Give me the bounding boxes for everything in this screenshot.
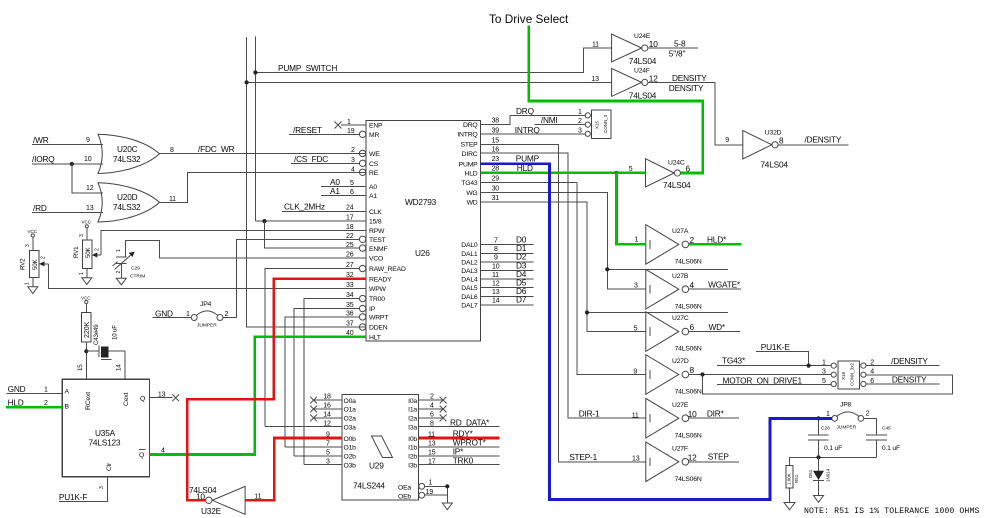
buffer U27F 74LS06N	[646, 442, 702, 483]
ground below R51	[784, 503, 795, 510]
svg-text:16: 16	[492, 147, 500, 154]
pin READY number	[346, 272, 354, 279]
svg-text:3: 3	[99, 486, 105, 489]
svg-text:HLD*: HLD*	[707, 235, 727, 245]
svg-text:STEP: STEP	[461, 142, 479, 149]
wire TG43 to U27D input	[481, 176, 646, 376]
resistor R49 220K	[77, 313, 100, 380]
svg-text:1: 1	[116, 249, 122, 252]
svg-text:33: 33	[346, 282, 354, 289]
svg-text:IP: IP	[369, 306, 376, 313]
node /NMI label to X15 pin2	[534, 115, 585, 125]
wire blue PUMP from chip to JP8	[481, 164, 832, 500]
svg-text:4: 4	[870, 369, 874, 376]
pin O3a 12 wire	[265, 420, 342, 427]
wire green HLD from chip to U24C and U27A	[481, 171, 646, 245]
svg-text:74LS123: 74LS123	[89, 438, 121, 448]
svg-text:RV1: RV1	[73, 246, 80, 258]
svg-text:1: 1	[429, 480, 433, 487]
power VCC for RV2	[25, 229, 38, 250]
wire DDEN net to U24F input	[245, 80, 612, 84]
svg-text:74LS04: 74LS04	[760, 160, 788, 170]
svg-text:14: 14	[492, 298, 500, 305]
svg-text:HLD: HLD	[465, 171, 478, 178]
node TRK0 into I3b	[419, 455, 500, 465]
svg-text:ENP: ENP	[369, 123, 383, 130]
svg-text:2: 2	[351, 147, 355, 154]
svg-text:U20C: U20C	[117, 144, 138, 154]
svg-text:DAL3: DAL3	[461, 268, 478, 275]
svg-text:3: 3	[25, 244, 31, 247]
svg-text:4: 4	[351, 167, 355, 174]
svg-text:/NMI: /NMI	[541, 115, 558, 125]
node RD_DATA* into I3a	[419, 417, 500, 427]
svg-text:JUMPER: JUMPER	[197, 323, 217, 329]
svg-text:1: 1	[635, 237, 639, 244]
svg-text:13: 13	[591, 76, 599, 83]
svg-text:TG43*: TG43*	[722, 356, 746, 366]
wire TEST to JP4 pin2	[223, 233, 366, 318]
node DAL2 D2	[481, 252, 534, 262]
svg-text:8: 8	[494, 246, 498, 253]
jumper JP8	[826, 402, 870, 431]
potentiometer RV1 50K	[73, 240, 101, 277]
svg-text:220K: 220K	[84, 321, 91, 338]
svg-text:1: 1	[826, 411, 830, 418]
wire stub net A from WG vertical	[605, 267, 728, 271]
chip U26 right pin names	[457, 122, 478, 309]
svg-text:TRK0: TRK0	[453, 455, 474, 465]
svg-text:4: 4	[690, 280, 695, 290]
svg-text:U35A: U35A	[95, 428, 116, 438]
svg-text:8: 8	[690, 365, 695, 375]
wire bus vertical B (15/8 net from top)	[254, 36, 256, 221]
svg-text:PUMP_SWITCH: PUMP_SWITCH	[278, 63, 337, 73]
svg-text:U27B: U27B	[672, 273, 689, 280]
svg-text:2: 2	[41, 256, 47, 259]
svg-text:Q: Q	[139, 452, 144, 459]
svg-text:I2b: I2b	[408, 454, 417, 461]
svg-text:RCext: RCext	[85, 392, 92, 410]
svg-text:O1a: O1a	[344, 407, 357, 414]
svg-text:DAL1: DAL1	[461, 251, 478, 258]
wire STEP to STEP-1	[481, 137, 646, 462]
svg-text:6: 6	[690, 322, 695, 332]
power VCC for RV1	[79, 220, 92, 241]
wire PUMP_SWITCH to U24E input	[253, 48, 611, 75]
svg-text:2: 2	[225, 311, 229, 318]
svg-text:O3b: O3b	[344, 463, 357, 470]
wire U20D output 11 to RE	[160, 172, 367, 203]
svg-text:PU1K-F: PU1K-F	[59, 492, 87, 502]
svg-text:74LS06N: 74LS06N	[675, 346, 702, 353]
svg-text:PU1K-E: PU1K-E	[761, 342, 790, 352]
svg-text:WD: WD	[467, 200, 478, 207]
pin O1a 16 no-connect	[310, 403, 342, 413]
svg-text:JUMPER: JUMPER	[837, 425, 857, 431]
svg-text:74LS06N: 74LS06N	[675, 259, 702, 266]
svg-text:35: 35	[346, 302, 354, 309]
note text about R51	[804, 507, 979, 516]
svg-text:19: 19	[347, 128, 355, 135]
pin O3b 3 wire	[304, 458, 342, 465]
svg-text:B: B	[65, 404, 70, 411]
svg-text:I1b: I1b	[408, 445, 417, 452]
svg-text:U27A: U27A	[672, 228, 689, 235]
svg-text:12: 12	[86, 185, 94, 192]
svg-text:RPW: RPW	[369, 228, 385, 235]
svg-text:JP4: JP4	[200, 301, 212, 308]
svg-text:5: 5	[634, 326, 638, 333]
buffer U27A 74LS06N	[635, 225, 702, 266]
svg-text:25: 25	[346, 242, 354, 249]
wire C28/C45 bottom junction	[790, 455, 877, 459]
buffer U27E 74LS06N	[646, 398, 702, 439]
inverter U32D 74LS04	[725, 130, 788, 170]
svg-text:DENSITY: DENSITY	[669, 83, 704, 93]
svg-text:U27E: U27E	[672, 402, 689, 409]
capacitor C43 10uF	[86, 325, 125, 379]
node WPROT* into I1b	[419, 438, 500, 448]
ground below OE pins	[442, 503, 452, 510]
svg-text:To Drive Select: To Drive Select	[489, 12, 569, 26]
svg-text:R51: R51	[794, 474, 799, 483]
svg-text:WPW: WPW	[369, 286, 387, 293]
svg-text:RAW_READ: RAW_READ	[369, 266, 406, 273]
svg-text:36: 36	[346, 310, 354, 317]
svg-text:/IORQ: /IORQ	[32, 154, 55, 164]
svg-text:50K: 50K	[85, 247, 92, 258]
svg-text:74LS32: 74LS32	[113, 202, 141, 212]
svg-text:10: 10	[688, 409, 697, 419]
svg-text:I3a: I3a	[408, 425, 417, 432]
capacitor C28 0.1uF	[808, 416, 842, 457]
pin O0a 18 no-connect	[310, 394, 342, 404]
pin CS bubble	[359, 160, 365, 166]
pin PUMP number and label	[492, 154, 540, 164]
svg-text:INTRQ: INTRQ	[457, 132, 477, 139]
svg-text:22: 22	[346, 233, 354, 240]
pin O1b 7 wire	[285, 441, 342, 448]
wire red U32E input from RDY vertical	[245, 438, 342, 500]
svg-text:RV2: RV2	[20, 258, 27, 270]
svg-text:TG43: TG43	[461, 180, 478, 187]
svg-text:10 uF: 10 uF	[112, 325, 119, 340]
svg-text:OEb: OEb	[398, 494, 411, 501]
svg-text:9: 9	[86, 137, 90, 144]
wire WRPT from U29 O1b	[285, 310, 366, 447]
svg-text:CONN_3: CONN_3	[603, 114, 608, 133]
node PU1K-E label	[756, 342, 808, 366]
diode D51 1N914	[808, 457, 831, 495]
svg-text:U26: U26	[415, 248, 430, 258]
node /RD label	[32, 203, 103, 213]
wire green HLT from U35A Qbar	[150, 337, 367, 455]
node DAL4 D4	[481, 269, 534, 279]
wire VCO from C29	[125, 240, 366, 258]
svg-text:24: 24	[346, 205, 354, 212]
svg-text:C45: C45	[882, 426, 891, 432]
svg-text:I0b: I0b	[408, 436, 417, 443]
svg-text:D51: D51	[808, 469, 813, 478]
wire U20C output /FDC_WR to WE	[160, 144, 367, 154]
svg-text:74LS04: 74LS04	[629, 56, 657, 66]
pin ENMF bubble	[346, 242, 366, 251]
svg-text:13: 13	[86, 205, 94, 212]
wire WD to U27C input	[481, 195, 646, 333]
svg-text:CTRIM: CTRIM	[130, 274, 145, 280]
svg-text:34: 34	[346, 292, 354, 299]
svg-text:WD2793: WD2793	[405, 197, 437, 207]
pin 15/8 number	[346, 215, 354, 222]
node /DENSITY from X18 pin2	[866, 356, 939, 366]
svg-text:U27F: U27F	[672, 445, 688, 452]
svg-text:0.1 uF: 0.1 uF	[824, 445, 842, 452]
wire Clr pin3 to PU1K-F	[59, 477, 108, 502]
svg-text:/FDC_WR: /FDC_WR	[198, 144, 235, 154]
trimmer capacitor C29 CTRIM	[113, 249, 146, 280]
svg-text:A1: A1	[330, 186, 340, 196]
pin Qbar 4 number	[161, 447, 165, 454]
pin DDEN bubble	[346, 320, 366, 330]
svg-text:WRPT: WRPT	[369, 315, 388, 322]
svg-text:1: 1	[578, 109, 582, 116]
svg-text:NOTE: R51 IS 1% TOLERANCE 1000: NOTE: R51 IS 1% TOLERANCE 1000 OHMS	[804, 507, 979, 516]
svg-text:STEP-1: STEP-1	[569, 452, 597, 462]
svg-text:/DENSITY: /DENSITY	[805, 135, 842, 145]
svg-text:MOTOR_ON_DRIVE1: MOTOR_ON_DRIVE1	[723, 375, 803, 385]
svg-text:VCC: VCC	[28, 229, 38, 234]
svg-text:38: 38	[492, 118, 500, 125]
wire RAW_READ from U29 O3a	[265, 262, 366, 427]
svg-text:I1a: I1a	[408, 407, 417, 414]
svg-text:/CS_FDC: /CS_FDC	[294, 154, 328, 164]
svg-text:14: 14	[115, 364, 122, 371]
svg-text:74LS32: 74LS32	[113, 154, 141, 164]
pin HLT number	[346, 330, 354, 337]
pin OEa OEb bubbles tied to ground	[419, 480, 450, 504]
svg-text:3: 3	[578, 128, 582, 135]
inverter U24E 74LS04	[592, 33, 658, 66]
wire U27D output to X18 pin3	[689, 372, 831, 376]
svg-text:10: 10	[492, 263, 500, 270]
node DENSITY output net	[648, 73, 743, 145]
svg-text:1: 1	[25, 282, 31, 285]
svg-text:DENSITY: DENSITY	[892, 374, 927, 384]
or-gate U20C 74LS32	[98, 134, 160, 173]
svg-text:READY: READY	[369, 277, 392, 284]
chip U26 left pin names	[369, 123, 406, 342]
wire TR00 from U29 O3b	[304, 292, 366, 465]
wire RPW from RV1 wiper	[101, 224, 366, 255]
svg-text:ENMF: ENMF	[369, 246, 388, 253]
svg-text:U20D: U20D	[117, 192, 138, 202]
connector X18 CONN_3x2	[822, 360, 874, 390]
svg-text:1: 1	[79, 272, 85, 275]
inverter U24F 74LS04	[591, 68, 658, 101]
svg-text:9: 9	[494, 255, 498, 262]
svg-text:O0a: O0a	[344, 398, 357, 405]
svg-text:DRQ: DRQ	[463, 122, 478, 129]
wire bus vertical A (DDEN net from top)	[247, 37, 366, 327]
resistor R51 1.00K	[786, 457, 799, 502]
wire red READY from chip	[187, 279, 366, 500]
svg-text:X15: X15	[595, 120, 600, 129]
svg-text:PUMP: PUMP	[459, 161, 479, 168]
svg-text:74LS06N: 74LS06N	[675, 432, 702, 439]
svg-text:Clr: Clr	[106, 462, 113, 471]
svg-text:2: 2	[116, 271, 122, 274]
svg-text:9: 9	[725, 137, 729, 144]
svg-text:/RD: /RD	[33, 203, 47, 213]
pin O2a 14 no-connect	[310, 412, 342, 422]
svg-text:5: 5	[822, 378, 826, 385]
wire /IORQ branch to U20D pin 12	[72, 164, 103, 193]
svg-text:O1b: O1b	[344, 445, 357, 452]
svg-text:9: 9	[633, 369, 637, 376]
svg-text:U24F: U24F	[634, 68, 650, 75]
svg-text:OEa: OEa	[398, 485, 411, 492]
chip U29 74LS244 body	[342, 395, 419, 501]
node DAL6 D6	[481, 286, 534, 296]
svg-text:DDEN: DDEN	[369, 325, 388, 332]
buffer U27D 74LS06N	[646, 355, 702, 396]
svg-text:A0: A0	[369, 184, 377, 191]
ground below D51	[814, 496, 824, 503]
capacitor C45 0.1uF	[864, 418, 900, 457]
node MOTOR_ON_DRIVE1 label wire to X18 pin5	[717, 375, 831, 385]
svg-text:1N914: 1N914	[826, 468, 831, 482]
node WGATE* output	[689, 280, 741, 290]
svg-text:I0a: I0a	[408, 398, 417, 405]
svg-text:15/8: 15/8	[369, 219, 382, 226]
buffer U27C 74LS06N	[646, 312, 702, 353]
svg-text:VCC: VCC	[82, 220, 92, 225]
svg-text:DENSITY: DENSITY	[672, 73, 707, 83]
svg-text:VCC: VCC	[81, 296, 91, 301]
node To Drive Select label	[489, 12, 569, 26]
node /RESET label to MR	[289, 125, 366, 138]
node WD* output	[689, 322, 740, 332]
svg-text:1: 1	[44, 387, 48, 394]
svg-text:WE: WE	[369, 151, 380, 158]
svg-text:5: 5	[350, 180, 354, 187]
svg-text:X18: X18	[841, 371, 846, 380]
svg-text:DAL5: DAL5	[461, 285, 478, 292]
svg-text:74LS244: 74LS244	[353, 481, 385, 491]
svg-text:10: 10	[84, 156, 92, 163]
svg-text:15: 15	[77, 364, 84, 371]
node DAL7 D7	[481, 295, 534, 305]
inverter U24C 74LS04	[629, 159, 691, 190]
svg-text:A: A	[65, 389, 70, 396]
svg-text:WG: WG	[466, 190, 477, 197]
svg-text:74LS04: 74LS04	[663, 180, 691, 190]
svg-text:12: 12	[492, 281, 500, 288]
node CLK_2MHz label	[282, 202, 366, 212]
wire IP from U29 O2b	[294, 302, 366, 456]
svg-text:7: 7	[494, 238, 498, 245]
svg-text:1.00K: 1.00K	[787, 473, 792, 485]
wire 15/8 line into chip	[255, 219, 366, 223]
svg-text:2: 2	[578, 118, 582, 125]
svg-text:I3b: I3b	[408, 463, 417, 470]
node DAL1 D1	[481, 243, 534, 253]
jumper JP4	[153, 301, 229, 329]
svg-text:26: 26	[346, 252, 354, 259]
svg-text:Cext: Cext	[123, 393, 130, 406]
svg-text:DIR*: DIR*	[707, 409, 725, 419]
chip U26 WD2793 body	[366, 120, 481, 341]
node TG43* label wire to X18 pin1	[717, 356, 831, 368]
svg-text:U32E: U32E	[201, 506, 222, 516]
pin O2b 5 wire	[294, 450, 342, 457]
pin I1a 4 no-connect	[419, 403, 447, 413]
node IP* into I2b	[419, 447, 500, 457]
svg-text:I2a: I2a	[408, 416, 417, 423]
svg-text:29: 29	[492, 176, 500, 183]
svg-text:GND: GND	[8, 384, 26, 394]
node RDY* into I0b (red)	[419, 429, 500, 439]
svg-text:1: 1	[347, 119, 351, 126]
wire U27D output loop to X18 pin4	[703, 375, 953, 394]
pin I2a 6 no-connect	[419, 412, 447, 422]
node /IORQ label	[32, 154, 103, 166]
node A1 label	[321, 186, 366, 196]
node A0 label	[321, 177, 366, 187]
svg-text:HLT: HLT	[369, 335, 381, 342]
wire stub net B from WD vertical	[585, 310, 728, 314]
svg-text:RE: RE	[369, 170, 379, 177]
wire DRQ to X15 pin1	[481, 106, 586, 125]
svg-text:74LS06N: 74LS06N	[675, 389, 702, 396]
svg-text:CLK: CLK	[369, 209, 382, 216]
pin ENP 1 with no-connect X	[335, 119, 367, 129]
svg-text:D7: D7	[516, 295, 527, 305]
pin WE bubble	[351, 147, 366, 157]
svg-text:DAL6: DAL6	[461, 294, 478, 301]
svg-text:O3a: O3a	[344, 425, 357, 432]
wire ENMF tie to 15/8	[265, 221, 360, 248]
svg-text:28: 28	[492, 165, 500, 172]
node /DENSITY output net	[778, 135, 849, 145]
svg-text:1: 1	[186, 311, 190, 318]
svg-text:U27D: U27D	[672, 358, 689, 365]
wire INTRQ to X15 pin3	[481, 125, 586, 135]
svg-text:50K: 50K	[32, 259, 39, 270]
svg-text:0.1 uF: 0.1 uF	[882, 445, 900, 452]
svg-text:Q: Q	[140, 396, 145, 403]
node GND into U35A pin A	[6, 384, 62, 394]
wire green To Drive Select net	[529, 26, 703, 174]
svg-text:3: 3	[634, 283, 638, 290]
svg-text:DAL2: DAL2	[461, 259, 478, 266]
svg-text:DAL4: DAL4	[461, 277, 478, 284]
svg-text:VCO: VCO	[369, 256, 383, 263]
node DAL5 D5	[481, 278, 534, 288]
ground below C29	[116, 278, 126, 285]
svg-text:/WR: /WR	[33, 135, 49, 145]
svg-text:3: 3	[351, 157, 355, 164]
svg-text:CS: CS	[369, 161, 379, 168]
svg-text:/DENSITY: /DENSITY	[891, 356, 928, 366]
svg-text:DIR-1: DIR-1	[579, 409, 600, 419]
svg-text:CLK_2MHz: CLK_2MHz	[284, 202, 325, 212]
svg-text:30: 30	[492, 185, 500, 192]
svg-text:74LS04: 74LS04	[629, 91, 657, 101]
svg-text:5-8: 5-8	[674, 39, 686, 49]
svg-text:74LS06N: 74LS06N	[675, 476, 702, 483]
